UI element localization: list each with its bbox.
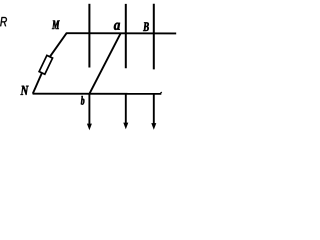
resistor R body — [39, 55, 52, 74]
field line B3 upper segment — [153, 4, 155, 70]
label a — [114, 23, 120, 30]
rod ab — [89, 33, 121, 94]
wire from resistor to N corner — [33, 72, 42, 93]
field line B1 lower segment with arrow — [88, 94, 90, 126]
field line B3 lower segment with arrow — [153, 94, 155, 125]
field line B2 upper segment — [125, 4, 127, 68]
label N — [21, 86, 29, 95]
bottom rail end tick — [160, 92, 161, 94]
label M — [52, 21, 60, 30]
field line B2 lower segment with arrow — [125, 94, 127, 125]
top rail M — [66, 32, 176, 34]
label b — [81, 96, 85, 105]
label B — [143, 22, 149, 31]
bottom rail N — [33, 93, 162, 95]
label R — [0, 17, 7, 26]
wire from M corner to resistor — [50, 33, 67, 57]
field line B1 upper segment — [88, 4, 90, 68]
